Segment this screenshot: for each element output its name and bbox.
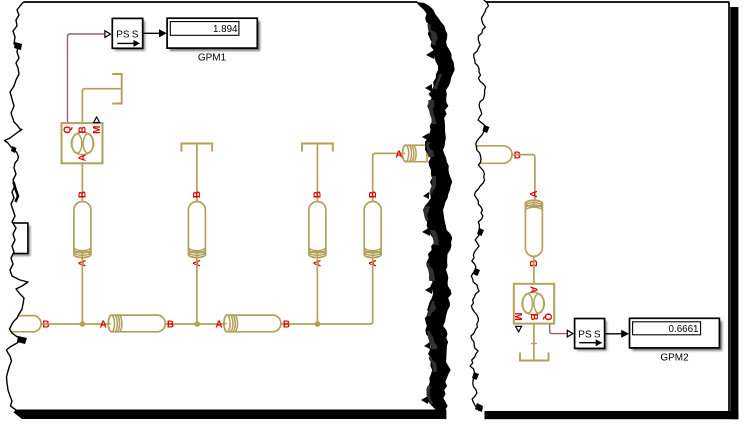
hydraulic cap bracket (closed port) (112, 74, 122, 104)
wire sensor1 A down to pipe1 B (81, 163, 83, 201)
sensor2 port label Q (542, 313, 553, 321)
svg-text:M: M (512, 312, 523, 320)
right panel bottom band (485, 411, 739, 419)
sensor2 port label B (528, 313, 539, 320)
wire P6 B down to sensor2 A (533, 256, 535, 283)
PS-Simulink converter block PS S 2 (575, 319, 607, 351)
pipe P6 vertical right panel (525, 200, 542, 256)
white mask outside left torn edge (0, 0, 28, 410)
input port triangle of PS-Simulink converter 1 (105, 31, 111, 38)
white mask outside right panel torn edge (457, 0, 488, 412)
wire pipe4 B up and right to pipe5 A (373, 153, 402, 201)
wire tick into pipe bottom (81, 252, 83, 259)
svg-text:B: B (192, 191, 203, 198)
svg-text:M: M (92, 126, 103, 134)
sensor2 port label M (512, 312, 523, 320)
svg-text:PSS: PSS (116, 29, 139, 40)
display block GPM2 (630, 318, 723, 350)
svg-text:B: B (42, 320, 49, 331)
wire sensor1 B up to cap bracket (82, 89, 120, 123)
right panel right border (728, 2, 730, 411)
sensor2 measurement direction arrow (516, 326, 522, 332)
pipe2 port label A (192, 260, 203, 267)
pipe3 port label A (313, 260, 324, 267)
svg-text:A: A (528, 286, 539, 293)
flow rate sensor block 1 (62, 123, 103, 163)
left panel torn left edge (5, 2, 29, 410)
HP2 port label A (215, 320, 222, 331)
flow rate sensor block 2 (514, 284, 554, 324)
hydraulic cap T over pipe3 (302, 144, 333, 202)
svg-text:B: B (528, 313, 539, 320)
pipe P0 horizontal cut by left torn edge (10, 316, 41, 332)
junction node 1 (80, 321, 86, 327)
HP5 port label B (514, 151, 521, 162)
pipe P2 vertical (188, 202, 205, 258)
pipe2 port label B (192, 191, 203, 198)
left panel bottom border band (14, 410, 447, 420)
signal wire converter2 to display2 (605, 330, 629, 338)
pipe1 port label A (78, 260, 89, 267)
pipe P1 vertical (74, 202, 91, 258)
sensor1 port label A (78, 154, 89, 161)
pipe P4 vertical (364, 202, 381, 258)
svg-text:A: A (395, 149, 402, 160)
HP1 port label A (100, 320, 107, 331)
signal wire converter1 to display1 (143, 29, 167, 37)
wire HP5 B to pipe P6 A (512, 155, 535, 201)
wire PS physical signal Q to PS-S converter (68, 34, 105, 123)
PS-Simulink converter block PS S 1 (112, 18, 145, 50)
svg-text:B: B (78, 126, 89, 133)
right panel right shadow (730, 7, 738, 419)
pipe5 port label A (395, 149, 402, 160)
svg-text:B: B (368, 191, 379, 198)
wire tick into pipe bottom (372, 252, 374, 259)
svg-text:B: B (167, 320, 174, 331)
pipe P6 port label B (529, 260, 540, 267)
svg-text:B: B (514, 151, 521, 162)
label GPM2 (660, 353, 689, 364)
wire pipe3 A down to bus (316, 258, 318, 325)
torn band gray shading (426, 50, 434, 59)
wire tick into pipe5 left end (401, 152, 405, 154)
svg-text:Q: Q (542, 313, 553, 321)
pipe HP5 horizontal cut by torn edge (468, 146, 512, 164)
junction node 3 (315, 321, 321, 327)
wire sensor2 B down to bottom cap (531, 324, 537, 360)
left panel top border (24, 1, 418, 3)
pipe3 port label B (313, 191, 324, 198)
wire pipe2 A down to bus (196, 258, 198, 325)
svg-text:GPM2: GPM2 (660, 353, 689, 364)
sensor1 port label Q (63, 126, 74, 134)
pipe4 port label B (368, 191, 379, 198)
pipe P3 vertical (309, 202, 326, 258)
svg-text:A: A (529, 190, 540, 197)
svg-text:1.894: 1.894 (213, 24, 238, 35)
bus wire bottom manifold (41, 258, 373, 325)
left panel torn right band (416, 2, 455, 414)
right panel top border (486, 1, 729, 3)
wire tick into pipe bottom (316, 252, 318, 259)
pipe1 port label B (78, 191, 89, 198)
right panel torn left edge (470, 0, 488, 411)
sensor2 port label A (528, 286, 539, 293)
hydraulic cap T under sensor2 (520, 353, 549, 361)
HP2 port label B (283, 320, 290, 331)
wire pipe1 A down to bus (81, 258, 83, 325)
wire tick into HP1 left end (106, 323, 111, 325)
pipe P6 port label A (529, 190, 540, 197)
sensor1 port label M (92, 126, 103, 134)
pipe HP2 horizontal (224, 315, 281, 332)
pipe HP1 horizontal (108, 315, 165, 332)
svg-text:0.6661: 0.6661 (669, 324, 699, 335)
pipe P5 horizontal top right cut by torn edge (403, 145, 428, 162)
HP1 port label B (167, 320, 174, 331)
svg-text:Q: Q (63, 126, 74, 134)
wire tick into pipe bottom (196, 252, 198, 259)
svg-text:A: A (215, 320, 222, 331)
svg-text:B: B (283, 320, 290, 331)
partial torn block with shadow (cut by left tear) (6, 223, 31, 256)
sensor1 port label B (78, 126, 89, 133)
svg-text:GPM1: GPM1 (198, 52, 227, 63)
input port triangle of PS-Simulink converter 2 (567, 330, 573, 337)
hydraulic cap T over pipe2 (181, 144, 212, 202)
label GPM1 (198, 52, 227, 63)
svg-text:B: B (313, 191, 324, 198)
svg-text:B: B (78, 191, 89, 198)
wire tick into HP2 left end (221, 323, 227, 325)
junction node 2 (194, 321, 200, 327)
svg-text:A: A (78, 154, 89, 161)
display block GPM1 (167, 18, 260, 51)
pipe4 port label A (368, 260, 379, 267)
wire tick into pipe top (533, 200, 535, 206)
sensor1 measurement direction arrow (94, 117, 100, 123)
svg-text:PSS: PSS (578, 329, 601, 340)
svg-text:A: A (100, 320, 107, 331)
pipe0 port label B (42, 320, 49, 331)
wire PS physical signal sensor2 Q to converter 2 (550, 324, 567, 334)
